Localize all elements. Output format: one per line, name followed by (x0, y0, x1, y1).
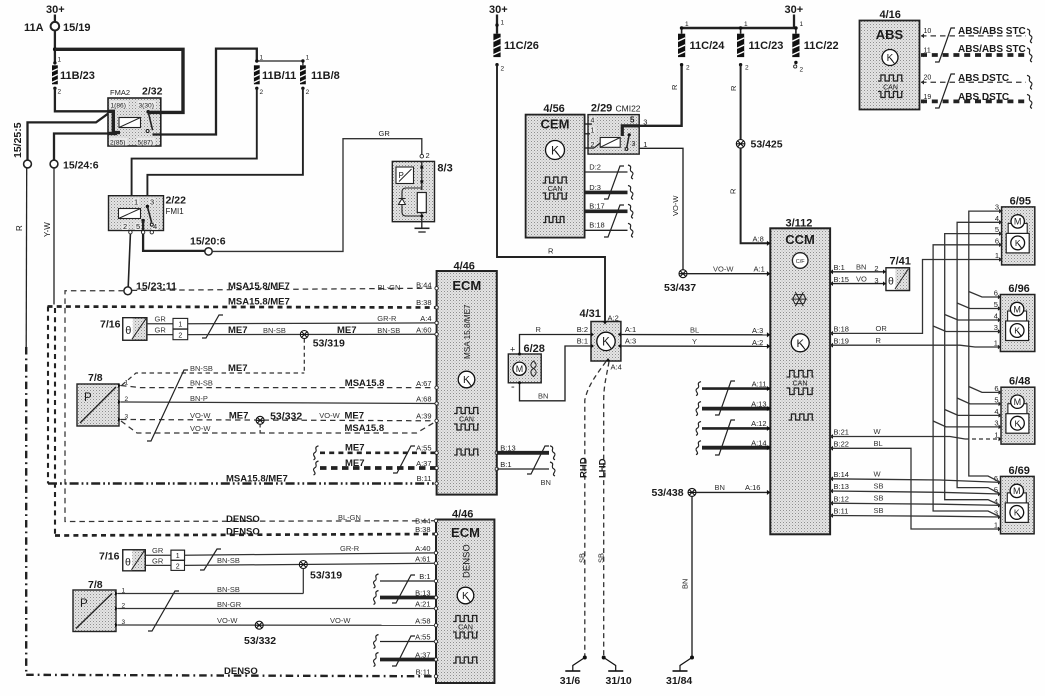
svg-text:8/3: 8/3 (437, 163, 452, 175)
svg-text:A:16: A:16 (745, 483, 760, 492)
svg-text:3: 3 (995, 203, 999, 212)
dashed wire VO-W MSA15.8 (lower alt) joining A:39 (121, 421, 435, 433)
svg-text:M: M (1014, 397, 1022, 407)
svg-text:CAN: CAN (883, 85, 898, 92)
splice 53/332 (lower) (255, 621, 263, 629)
svg-text:53/425: 53/425 (751, 139, 783, 151)
svg-text:53/319: 53/319 (313, 338, 345, 350)
fuse 11C/24 (681, 28, 683, 34)
svg-text:M: M (1013, 304, 1021, 314)
svg-text:2: 2 (874, 264, 878, 273)
svg-text:Y: Y (692, 337, 697, 346)
svg-text:SB: SB (597, 553, 606, 563)
svg-text:DENSO: DENSO (224, 666, 258, 677)
svg-text:A:58: A:58 (415, 616, 430, 625)
svg-text:GR: GR (152, 556, 164, 565)
svg-text:B:14: B:14 (834, 470, 849, 479)
wire thick loop to relay 2/32 pin 3(30) (55, 49, 183, 112)
svg-text:1(86): 1(86) (111, 103, 126, 110)
svg-text:1: 1 (994, 521, 998, 530)
svg-text:1: 1 (995, 251, 999, 260)
wire R from 11C/26 to 4/31 A:2 (497, 65, 605, 322)
relay 2/22 switch arm (146, 205, 149, 208)
svg-text:A:2: A:2 (608, 314, 619, 323)
svg-text:ME7: ME7 (345, 411, 365, 422)
svg-text:5(87): 5(87) (138, 140, 153, 147)
svg-text:11B/23: 11B/23 (60, 70, 95, 82)
svg-text:B:19: B:19 (834, 337, 849, 346)
svg-text:5: 5 (995, 225, 999, 234)
ground 31/10 (602, 656, 624, 672)
svg-text:2: 2 (260, 89, 264, 96)
dashed wire SB (RHD) from 4/31 A:4 to ground 31/6 (585, 362, 606, 657)
trunk wire: 6/95 pin 5 / 6/96 pin 4 / 6/48 pin 4 / 6/69 pin 4 (945, 234, 1002, 506)
svg-text:4: 4 (995, 214, 999, 223)
svg-text:53/437: 53/437 (664, 282, 696, 294)
wire MSA15.8/ME7 dashed line to ECM1 B:11 (48, 482, 436, 484)
branch splice 53/332 down to alt line (259, 425, 261, 434)
svg-text:A:40: A:40 (415, 544, 430, 553)
svg-text:-: - (511, 381, 515, 393)
svg-text:K: K (463, 375, 470, 386)
svg-text:B:18: B:18 (589, 221, 604, 230)
svg-text:ABS/ABS STC: ABS/ABS STC (958, 26, 1026, 37)
CEM-2/29 pin stubs (585, 123, 592, 125)
svg-text:VO-W: VO-W (190, 411, 211, 420)
dashed wire ME7 to ECM1 A:37 (heavy) (313, 461, 318, 475)
wire W CCM B:21 to 6/48 pin 1 (830, 434, 833, 439)
wire to ECM2 A:55 (373, 635, 378, 649)
wire R lower section (dashed, to ECM DENSO B:11) (25, 347, 27, 672)
svg-text:6/95: 6/95 (1010, 195, 1031, 207)
svg-text:MSA15.8/ME7: MSA15.8/ME7 (228, 297, 290, 308)
svg-text:B:1: B:1 (419, 572, 430, 581)
svg-text:GR: GR (155, 315, 167, 324)
svg-text:MSA15.8: MSA15.8 (345, 378, 385, 389)
svg-text:15/19: 15/19 (63, 22, 91, 34)
svg-text:6: 6 (994, 289, 998, 298)
svg-text:B:44: B:44 (416, 281, 431, 290)
svg-text:11B/11: 11B/11 (262, 70, 296, 82)
svg-text:BN-P: BN-P (190, 394, 208, 403)
CCM snowflake icon (791, 292, 807, 306)
dashed wire BN-SB MSA15.8 to ECM1 A:67 (121, 386, 436, 388)
svg-text:11C/24: 11C/24 (690, 40, 726, 52)
svg-text:B:2: B:2 (577, 325, 588, 334)
svg-text:BL: BL (690, 326, 699, 335)
svg-text:BN: BN (541, 478, 551, 487)
svg-text:BL-GN: BL-GN (338, 513, 361, 522)
svg-text:2: 2 (306, 89, 310, 96)
svg-text:DENSO: DENSO (226, 527, 260, 538)
svg-text:A:1: A:1 (754, 265, 765, 274)
wire BN 6/28 to 4/31 B:1 (520, 346, 592, 401)
svg-text:ECM: ECM (451, 525, 480, 540)
svg-text:20: 20 (924, 75, 932, 82)
svg-text:CMI22: CMI22 (616, 104, 641, 114)
svg-text:BN-SB: BN-SB (217, 556, 240, 565)
svg-text:B:12: B:12 (834, 494, 849, 503)
wire BN CCM B:1 to 7/41 pin 2 (830, 269, 833, 274)
ground 31/6 (565, 656, 587, 672)
svg-text:R: R (15, 225, 24, 231)
wire BN-GR to ECM2 A:21 (118, 608, 436, 610)
svg-text:1: 1 (744, 21, 748, 28)
ECM1 right pin B:13 wire (495, 451, 498, 454)
svg-text:R: R (536, 325, 542, 334)
branch splice down to BN-SB line from 7/8 pin 1 (302, 569, 304, 594)
svg-text:BN: BN (681, 579, 690, 589)
svg-text:M: M (1014, 217, 1022, 227)
svg-text:2/22: 2/22 (166, 195, 187, 207)
wire BN-SB from 7/8 pin 1 up into splice (118, 593, 303, 595)
svg-text:VO-W: VO-W (330, 616, 351, 625)
wire BL CCM B:22 to 6/69 pin 1 (830, 446, 833, 451)
svg-text:SB: SB (874, 494, 884, 503)
svg-text:2: 2 (745, 65, 749, 72)
svg-text:A:39: A:39 (416, 412, 431, 421)
svg-text:BN: BN (856, 263, 866, 272)
relay 2/32 (FMA2) (108, 98, 161, 146)
svg-text:2: 2 (426, 151, 430, 160)
connector 15/19 (51, 22, 60, 31)
svg-text:BN-GR: BN-GR (217, 600, 242, 609)
svg-text:A:3: A:3 (625, 337, 636, 346)
wire to ECM2 B:13 (heavy) (373, 591, 378, 605)
svg-text:2: 2 (501, 66, 505, 73)
svg-text:VO-W: VO-W (217, 616, 238, 625)
svg-text:6/69: 6/69 (1009, 465, 1030, 477)
wire W CCM B:14 to 6/69 pin 6 (830, 476, 833, 481)
svg-text:11C/22: 11C/22 (804, 40, 839, 52)
svg-text:BN-SB: BN-SB (217, 585, 240, 594)
svg-text:A:37: A:37 (415, 651, 430, 660)
svg-text:11B/8: 11B/8 (311, 70, 340, 82)
svg-text:θ: θ (125, 325, 131, 337)
svg-text:SB: SB (874, 506, 884, 515)
svg-text:ABS DSTC: ABS DSTC (958, 73, 1009, 84)
svg-text:A:60: A:60 (416, 326, 431, 335)
svg-text:B:21: B:21 (834, 428, 849, 437)
svg-text:DENSO: DENSO (226, 514, 260, 525)
svg-text:2: 2 (58, 89, 62, 96)
svg-text:A:55: A:55 (415, 633, 430, 642)
dashed wire SB (LHD) from 4/31 A:4 to ground 31/10 (604, 362, 609, 657)
svg-text:3: 3 (994, 323, 998, 332)
svg-text:1: 1 (994, 431, 998, 440)
svg-text:A:37: A:37 (416, 459, 431, 468)
svg-text:+: + (510, 345, 515, 355)
svg-text:VO: VO (856, 274, 867, 283)
dashed wire ME7 to ECM1 A:55 (313, 446, 318, 460)
svg-text:15/24:6: 15/24:6 (63, 160, 99, 172)
svg-text:ECM: ECM (452, 278, 481, 293)
svg-text:A:4: A:4 (611, 363, 622, 372)
svg-text:A:21: A:21 (415, 600, 430, 609)
wire MSA15.8/ME7 bold dashed to ECM1 B:38 (48, 307, 437, 308)
ABS pin 20 wire ABS DSTC (921, 80, 924, 85)
wire to ECM2 A:37 (heavy) (373, 653, 378, 667)
svg-text:BN-SB: BN-SB (377, 326, 400, 335)
svg-text:2: 2 (800, 67, 804, 74)
svg-text:1: 1 (176, 553, 180, 560)
svg-text:30+: 30+ (785, 4, 804, 16)
svg-text:2: 2 (123, 222, 127, 231)
svg-text:6: 6 (995, 236, 999, 245)
30+ rail (682, 27, 796, 30)
ABS pin 11 wire ABS/ABS STC (heavy) (921, 53, 924, 58)
wire SB CCM B:11 to 6/69 pin 3 (830, 513, 833, 518)
svg-text:A:2: A:2 (752, 338, 763, 347)
dashed branch splice 53/319 down to ME7 BN-SB line (303, 339, 305, 373)
svg-text:K: K (796, 338, 804, 350)
wire SB CCM B:13 to 6/69 pin 5 (830, 489, 833, 494)
wire VO-W to CCM A:1 (687, 273, 770, 275)
ABS pin 19 wire ABS DSTC (heavy) (921, 99, 924, 104)
cable slash over 7/8 wires (147, 370, 188, 441)
svg-text:4: 4 (994, 312, 998, 321)
svg-text:1: 1 (501, 20, 505, 27)
svg-text:BL: BL (874, 439, 883, 448)
svg-text:31/10: 31/10 (606, 675, 632, 687)
svg-text:D:3: D:3 (589, 183, 601, 192)
svg-text:SB: SB (578, 553, 587, 563)
wire GR-R to ECM1 A:4 (188, 322, 436, 325)
svg-text:M: M (516, 364, 523, 374)
svg-text:VO-W: VO-W (671, 195, 680, 216)
svg-text:A:4: A:4 (420, 314, 431, 323)
trunk wire: 6/95 pin 3 / 6/96 pin 6 / 6/48 pin 6 / 6/69 pin 6 (969, 211, 1002, 482)
svg-text:ME7: ME7 (345, 443, 365, 454)
svg-text:1: 1 (178, 322, 182, 329)
svg-text:7/41: 7/41 (890, 256, 911, 268)
svg-text:2: 2 (176, 563, 180, 570)
svg-text:D:2: D:2 (589, 163, 601, 172)
dashed BL-GN branch down to ECM2 B:44 (DENSO) (65, 291, 436, 522)
dashed wire VO-W ME7 through splice 53/332 to ECM1 A:39 (121, 420, 436, 421)
ECM1 right pin B:1 wire (497, 468, 549, 470)
svg-text:53/319: 53/319 (310, 570, 342, 582)
svg-text:A:61: A:61 (415, 555, 430, 564)
svg-text:3: 3 (874, 276, 878, 285)
svg-text:B:17: B:17 (589, 202, 604, 211)
svg-text:4/16: 4/16 (880, 9, 901, 21)
svg-text:B:13: B:13 (834, 482, 849, 491)
svg-text:B:13: B:13 (415, 589, 430, 598)
connector 15/20:6 (205, 248, 212, 255)
svg-text:5: 5 (630, 116, 635, 125)
svg-text:31/6: 31/6 (560, 675, 581, 687)
fuse 11C/26 (493, 34, 500, 57)
svg-text:3: 3 (994, 418, 998, 427)
svg-text:B:1: B:1 (500, 460, 511, 469)
wire 2/29 pin 3 to fuse 11C/24 (639, 65, 681, 126)
svg-text:BN: BN (715, 483, 725, 492)
wire Y 4/31 A:3 to CCM A:2 (621, 345, 770, 347)
svg-text:BL-GN: BL-GN (378, 283, 401, 292)
svg-text:11C/26: 11C/26 (504, 40, 539, 52)
svg-text:ME7: ME7 (345, 458, 365, 469)
svg-text:CAN: CAN (458, 625, 473, 632)
connector 15/23:11 (124, 287, 132, 295)
svg-text:ME7: ME7 (228, 325, 248, 336)
svg-text:6/28: 6/28 (524, 343, 545, 355)
svg-text:B:18: B:18 (834, 325, 849, 334)
svg-text:CCM: CCM (785, 232, 815, 247)
ground (8/3) (415, 227, 430, 229)
svg-text:R: R (729, 188, 738, 194)
wire BN-SB through splice 53/319 (lower) to ECM2 A:61 (185, 563, 437, 565)
svg-text:53/332: 53/332 (244, 635, 276, 647)
svg-text:R: R (729, 85, 738, 91)
svg-text:B:1: B:1 (834, 263, 845, 272)
ground 31/84 (673, 656, 695, 672)
wire GR-R to ECM2 A:40 (185, 553, 437, 555)
svg-text:K: K (551, 143, 559, 157)
svg-text:30+: 30+ (46, 4, 65, 16)
svg-text:4: 4 (994, 407, 998, 416)
svg-text:R: R (548, 247, 554, 256)
svg-text:VO-W: VO-W (319, 411, 340, 420)
svg-text:1: 1 (134, 198, 138, 207)
svg-text:VO-W: VO-W (190, 424, 211, 433)
svg-text:FMA2: FMA2 (110, 88, 130, 97)
svg-text:GR: GR (155, 326, 167, 335)
svg-text:7/8: 7/8 (88, 579, 103, 591)
svg-text:CAN: CAN (548, 186, 563, 193)
svg-text:P: P (80, 598, 88, 610)
wire 11B/11 to relay 2/22 pin 1 (132, 88, 257, 195)
svg-text:R: R (876, 336, 882, 345)
wire BL 4/31 A:1 to CCM A:3 (621, 334, 770, 336)
fuse 11B/8 (301, 59, 304, 62)
svg-text:OR: OR (876, 324, 888, 333)
wire R CCM B:19 to 6/96 pin 1 (830, 343, 833, 348)
wire OR CCM B:18 to 6/95 pin 1 (830, 331, 833, 336)
svg-text:BN: BN (538, 391, 548, 400)
fuse 11C/23 (740, 28, 742, 34)
dashed wire BN-SB ME7 from 7/8 pin 1 (122, 373, 304, 385)
svg-text:A:67: A:67 (416, 379, 431, 388)
wire BN-SB through splice 53/319 to ECM1 A:60 (188, 333, 436, 335)
svg-text:4: 4 (153, 222, 157, 231)
svg-text:7/16: 7/16 (100, 319, 121, 331)
svg-text:10: 10 (924, 28, 932, 35)
svg-text:31/84: 31/84 (666, 675, 692, 687)
splice 53/438 and wire BN to CCM A:16 (688, 488, 696, 496)
wire rail to fuse 11B/8 (257, 61, 303, 65)
connector 15/24:6 (54, 134, 108, 161)
svg-text:P: P (84, 392, 92, 404)
svg-text:A:11: A:11 (752, 379, 767, 388)
svg-text:5: 5 (994, 486, 998, 495)
wire R from 11C/23 to splice 53/425 and CCM A:8 (740, 65, 742, 140)
svg-text:B:11: B:11 (834, 507, 849, 516)
wire branch dashed down to ECM1 B:11 line (47, 307, 49, 484)
svg-text:3: 3 (150, 198, 154, 207)
svg-text:11A: 11A (24, 22, 44, 34)
solenoid 8/3 (420, 154, 424, 158)
wire relay 2/32 pin 5(87) up to fuses 11B/11 + 11B/8 (161, 49, 257, 135)
svg-text:MSA15.8/ME7: MSA15.8/ME7 (226, 474, 288, 485)
splice 53/437 (679, 270, 687, 278)
trunk wire: 6/95 pin 6 / 6/96 pin 3 / 6/48 pin 3 / 6/69 pin 3 (933, 245, 1002, 517)
splice 53/319 (lower) (299, 561, 307, 569)
svg-text:6: 6 (994, 384, 998, 393)
svg-text:GR-R: GR-R (377, 314, 397, 323)
fuse 11C/22 (795, 28, 797, 34)
svg-text:A:55: A:55 (416, 444, 431, 453)
svg-text:1: 1 (800, 21, 804, 28)
svg-text:ABS/ABS STC: ABS/ABS STC (958, 44, 1026, 55)
svg-text:4/56: 4/56 (543, 103, 564, 115)
svg-text:MSA15.8: MSA15.8 (345, 423, 385, 434)
svg-text:MSA 15.8/ME7: MSA 15.8/ME7 (463, 304, 472, 359)
svg-text:A:8: A:8 (753, 235, 764, 244)
svg-text:Y-W: Y-W (43, 222, 52, 237)
svg-text:B:15: B:15 (834, 275, 849, 284)
svg-text:11C/23: 11C/23 (749, 40, 784, 52)
ABS pin 10 wire ABS/ABS STC (921, 34, 924, 39)
svg-text:6/96: 6/96 (1008, 283, 1029, 295)
fuse 11B/23 (53, 61, 56, 64)
svg-text:SB: SB (874, 482, 884, 491)
svg-text:3: 3 (632, 141, 636, 148)
svg-text:MSA15.8/ME7: MSA15.8/ME7 (228, 281, 290, 292)
svg-text:θ: θ (888, 276, 894, 288)
wire BN-P to ECM1 A:68 (121, 402, 436, 404)
svg-text:53/438: 53/438 (652, 487, 684, 499)
svg-text:ME7: ME7 (228, 363, 248, 374)
svg-text:15/20:6: 15/20:6 (190, 236, 226, 248)
splice 53/319 (300, 331, 308, 339)
wire BN down to ground 31/84 (691, 497, 693, 657)
svg-text:1: 1 (994, 339, 998, 348)
svg-text:7/8: 7/8 (88, 372, 103, 384)
svg-text:W: W (874, 427, 882, 436)
wire branch dashed down to ECM2 B:38 (DENSO) (54, 308, 56, 536)
svg-text:RHD: RHD (579, 457, 590, 478)
svg-text:K: K (462, 591, 469, 602)
wire VO CCM B:15 to 7/41 pin 3 (830, 281, 833, 286)
relay 2/22 (FMI1) (109, 196, 164, 231)
7/16 pin terminals 1,2 (147, 323, 173, 325)
svg-text:B:22: B:22 (834, 440, 849, 449)
svg-text:BN-SB: BN-SB (190, 364, 213, 373)
svg-text:M: M (1013, 486, 1021, 496)
svg-text:B:38: B:38 (415, 525, 430, 534)
svg-text:5: 5 (994, 300, 998, 309)
svg-text:1: 1 (685, 21, 689, 28)
svg-text:ME7: ME7 (337, 325, 357, 336)
svg-text:2/32: 2/32 (142, 86, 163, 98)
wire to ECM2 B:1 (373, 574, 378, 588)
svg-text:5: 5 (136, 222, 140, 231)
svg-text:GR-R: GR-R (340, 544, 360, 553)
svg-text:A:68: A:68 (416, 395, 431, 404)
svg-text:ABS: ABS (876, 27, 904, 42)
wire 15/19 down to fuse 11B/23 (54, 31, 56, 63)
svg-text:ABS DSTC: ABS DSTC (958, 92, 1009, 103)
svg-text:VO-W: VO-W (713, 265, 734, 274)
wire 11B/8 to relay 2/22 pin 3 (147, 88, 303, 195)
svg-text:CEM: CEM (541, 117, 570, 132)
svg-text:A:12: A:12 (751, 419, 766, 428)
wire 2/29 pin 1 (VO-W) down to splice 53/437 (639, 148, 683, 269)
svg-text:2/29: 2/29 (591, 103, 612, 115)
svg-text:53/332: 53/332 (270, 410, 302, 422)
svg-text:C/F: C/F (796, 259, 806, 265)
